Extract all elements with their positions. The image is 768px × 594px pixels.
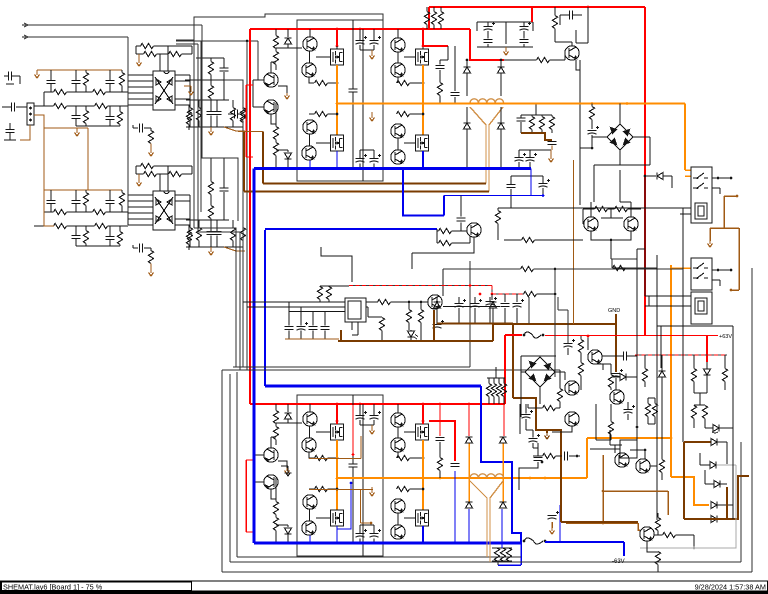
brown wire: [603, 490, 668, 492]
wire: [397, 53, 399, 63]
wire: [189, 195, 191, 225]
wire: [175, 80, 190, 82]
wire: [76, 128, 78, 130]
red wire: [246, 531, 253, 533]
wire: [190, 86, 192, 89]
mosfet M7: [331, 510, 344, 526]
resistor R24: [169, 171, 182, 176]
wire: [491, 286, 493, 295]
capacitor C70: [451, 464, 460, 467]
transistor Q2: [302, 63, 316, 77]
wire: [676, 534, 695, 536]
wire: [587, 7, 589, 43]
wire: [433, 25, 435, 30]
red wire: [423, 29, 448, 46]
wire: [487, 44, 489, 47]
capacitor C73: [565, 452, 568, 461]
wire: [210, 127, 212, 129]
capacitor C11: [106, 237, 115, 240]
wire: [321, 247, 352, 282]
wire: [133, 127, 138, 129]
wire: [9, 123, 11, 130]
resistor R5: [54, 103, 67, 108]
wire: [410, 488, 424, 490]
wire: [610, 388, 612, 391]
wire: [693, 535, 695, 548]
wire: [551, 130, 553, 134]
junction: [468, 542, 471, 545]
red wire: [469, 29, 471, 40]
wire: [210, 236, 212, 248]
LED arrows: [414, 335, 418, 340]
orange wire: [336, 440, 338, 510]
electrolytic capacitor C55: [522, 415, 531, 419]
wire: [397, 78, 399, 84]
wire: [75, 226, 77, 236]
wire: [76, 245, 120, 247]
wire: [4, 75, 9, 77]
wire: [410, 82, 424, 84]
resistor R75: [659, 460, 664, 473]
wire: [520, 115, 522, 118]
wire: [222, 571, 752, 573]
capacitor C24: [349, 89, 358, 92]
connector K1 outline: [691, 167, 712, 223]
diode D40: [620, 374, 626, 381]
blue wire: [336, 151, 338, 168]
electrolytic capacitor C32: [484, 27, 493, 31]
wire: [373, 525, 375, 534]
wire: [287, 150, 289, 152]
resistor R4: [93, 89, 106, 94]
junction: [336, 477, 339, 480]
wire: [253, 454, 264, 456]
wire: [154, 45, 193, 47]
wire: [189, 220, 191, 228]
wire: [410, 457, 424, 459]
wire: [614, 445, 616, 453]
wire: [184, 85, 191, 87]
wire: [352, 20, 354, 89]
wire: [150, 264, 152, 271]
transistor Q9: [391, 124, 405, 138]
wire: [511, 175, 543, 177]
wire: [498, 378, 500, 384]
wire: [559, 370, 561, 389]
wire: [288, 302, 290, 326]
wire: [644, 355, 646, 369]
wire: [197, 44, 199, 232]
wire: [645, 295, 691, 297]
wire: [359, 150, 361, 159]
wire: [680, 207, 691, 209]
wire: [119, 245, 121, 247]
wire: [121, 190, 123, 193]
junction: [730, 289, 733, 292]
resistor R25: [148, 251, 153, 264]
diode D50: [466, 437, 473, 443]
capacitor C39: [517, 118, 526, 121]
wire: [127, 195, 129, 225]
brown wire: [262, 132, 264, 184]
transistor Q17: [303, 495, 317, 509]
brown wire: [683, 442, 685, 519]
wire: [439, 471, 441, 479]
wire: [76, 125, 120, 127]
wire: [144, 247, 151, 249]
junction: [717, 177, 720, 180]
long wire: [200, 41, 202, 212]
brown wire: [615, 314, 617, 372]
blue wire: [309, 536, 311, 544]
wire: [328, 457, 338, 459]
diode D8: [498, 123, 505, 129]
wire: [442, 269, 444, 296]
ground: [545, 433, 550, 439]
wire: [654, 398, 656, 404]
junction: [422, 457, 425, 460]
junction: [479, 293, 482, 296]
junction: [370, 522, 373, 525]
junction: [576, 455, 579, 458]
status box left: [2, 582, 192, 590]
wire: [510, 189, 512, 208]
wire: [647, 398, 649, 404]
resistor R64: [494, 548, 499, 561]
wire: [373, 164, 375, 169]
diode D34: [711, 439, 717, 446]
blue wire: [403, 169, 444, 216]
wire: [175, 98, 190, 100]
wire: [500, 107, 502, 123]
long wire: [194, 14, 383, 40]
junction: [336, 28, 339, 31]
transistor Q27: [624, 217, 638, 231]
wire: [360, 49, 374, 51]
power block outline: [297, 395, 383, 556]
wire: [408, 323, 410, 331]
red rail wire: [424, 403, 505, 405]
wire: [67, 105, 95, 107]
brown wire: [573, 160, 575, 324]
wire: [528, 297, 530, 324]
resistor R17: [93, 209, 106, 214]
wire: [109, 190, 111, 201]
wire: [328, 488, 338, 490]
wire: [287, 44, 289, 48]
resistor R62: [539, 117, 544, 130]
wire: [542, 176, 544, 184]
ground: [549, 156, 554, 162]
wire: [411, 253, 413, 269]
resistor R41: [439, 240, 452, 245]
status bar frame: [1, 581, 768, 591]
wire: [328, 82, 338, 84]
wire: [426, 25, 428, 30]
wire: [437, 230, 439, 232]
wire: [270, 62, 272, 73]
wire: [176, 39, 194, 41]
wire: [504, 102, 507, 104]
resistor R71: [722, 369, 727, 382]
resistor R53: [273, 518, 278, 531]
capacitor C47: [321, 327, 330, 330]
wire: [300, 331, 302, 340]
resistor R60: [437, 83, 442, 96]
transistor Q31: [636, 459, 650, 473]
wire: [159, 174, 161, 191]
bus wire: [222, 369, 560, 371]
wire: [381, 316, 383, 319]
wire: [704, 470, 706, 484]
wire: [647, 542, 658, 553]
wire: [460, 223, 462, 232]
transistor Q25: [565, 412, 579, 426]
long wire: [656, 255, 658, 453]
junction: [591, 147, 594, 150]
wire: [289, 311, 345, 313]
wire: [275, 65, 277, 71]
junction: [466, 59, 469, 62]
wire: [397, 514, 399, 525]
wire: [312, 312, 314, 326]
wire: [493, 378, 495, 384]
wire: [371, 425, 373, 428]
wire: [433, 7, 435, 12]
op-amp U2: [153, 191, 175, 230]
junction: [29, 119, 32, 122]
wire: [503, 397, 505, 405]
wire: [275, 49, 277, 52]
capacitor C3: [106, 81, 115, 84]
wire: [410, 330, 412, 331]
controller U5: [345, 298, 366, 322]
wire: [439, 96, 441, 104]
wire: [210, 219, 212, 221]
resistor R59: [552, 16, 557, 29]
wire: [580, 353, 582, 363]
wire: [469, 237, 471, 244]
wire: [36, 70, 38, 72]
wire: [270, 437, 272, 448]
wire: [619, 104, 621, 125]
red wire: [245, 85, 247, 157]
red wire: [352, 405, 354, 454]
wire: [37, 69, 44, 71]
brown wire: [309, 458, 361, 460]
blue wire: [336, 526, 338, 543]
blue wire: [443, 196, 445, 216]
junction: [469, 284, 472, 287]
wire: [682, 325, 684, 327]
wire: [660, 326, 662, 368]
wire: [454, 46, 456, 60]
resistor R29: [187, 108, 192, 121]
wire: [705, 483, 714, 485]
wire: [128, 104, 153, 106]
wire: [520, 122, 522, 133]
brown wire: [709, 228, 711, 241]
blue wire: [265, 228, 437, 230]
wire: [500, 60, 502, 67]
blue wire: [422, 151, 424, 168]
resistor R48: [273, 427, 278, 440]
wire: [609, 430, 611, 445]
wire: [189, 121, 191, 128]
wire: [649, 137, 651, 160]
resistor R55: [543, 405, 556, 410]
wire: [128, 92, 153, 94]
wire: [157, 173, 169, 175]
capacitor C8: [72, 201, 81, 204]
wire: [109, 106, 111, 117]
junction: [336, 420, 339, 423]
junction: [359, 28, 362, 31]
wire: [128, 212, 153, 214]
wire: [532, 443, 534, 448]
wire: [551, 522, 553, 528]
resistor R40: [273, 52, 278, 65]
wire: [467, 102, 470, 104]
red wire: [706, 336, 708, 363]
wire: [619, 150, 621, 165]
blue wire: [337, 483, 351, 543]
wire: [519, 149, 551, 151]
wire: [443, 268, 521, 270]
capacitor C17: [207, 112, 216, 115]
wire: [309, 29, 311, 37]
resistor R43: [522, 237, 535, 242]
resistor R40: [439, 228, 452, 233]
wire: [336, 46, 338, 49]
red wire: [505, 334, 522, 336]
capacitor C42: [507, 185, 516, 188]
wire: [136, 53, 144, 55]
resistor R62: [613, 265, 626, 270]
switch contact K1b: [693, 183, 708, 188]
wire: [704, 419, 706, 429]
wire: [75, 70, 77, 81]
wire: [593, 165, 595, 202]
capacitor C18: [213, 112, 222, 115]
wire: [489, 306, 491, 323]
wire: [580, 336, 582, 340]
red dashed wire: [635, 354, 727, 356]
resistor R47: [273, 411, 278, 424]
wire: [271, 115, 276, 125]
transistor Q15: [391, 413, 405, 427]
wire: [615, 378, 617, 390]
wire: [610, 240, 612, 259]
brown bus wire: [437, 322, 513, 324]
orange wire: [671, 477, 709, 505]
wire: [644, 176, 646, 183]
transistor Q14: [264, 475, 278, 489]
electrolytic capacitor C61: [486, 302, 495, 306]
brown wire: [726, 487, 728, 519]
wire: [198, 220, 200, 228]
wire: [121, 70, 123, 73]
resistor R11: [169, 51, 182, 56]
diode D7: [464, 123, 471, 129]
transistor Q10: [391, 150, 405, 164]
wire: [657, 325, 733, 327]
component box: [620, 440, 637, 458]
wire: [498, 397, 500, 405]
zener D33: [713, 425, 719, 432]
wire: [541, 115, 543, 117]
wire: [521, 355, 556, 357]
wire: [497, 561, 499, 565]
wire: [647, 417, 649, 425]
wire: [188, 125, 190, 131]
wire: [436, 308, 438, 323]
resistor R55: [424, 12, 429, 25]
wire: [75, 119, 77, 127]
wire: [189, 100, 191, 108]
wire: [724, 355, 726, 369]
wire: [706, 375, 708, 393]
brown wire: [309, 489, 373, 491]
resistor R30: [196, 108, 201, 121]
wire: [685, 169, 691, 171]
wire: [525, 404, 527, 414]
svg-text:GND: GND: [608, 308, 620, 314]
wire: [373, 420, 375, 425]
blue wire: [530, 169, 532, 196]
wire: [43, 92, 45, 106]
wire: [602, 355, 624, 357]
wire: [242, 220, 244, 228]
ground: [370, 53, 375, 59]
wire: [132, 125, 134, 128]
junction: [350, 482, 353, 485]
wire: [136, 173, 144, 175]
wire: [644, 382, 646, 388]
brown supply bus wire: [44, 69, 122, 71]
wire: [440, 7, 442, 12]
wire: [232, 100, 234, 108]
capacitor C2: [72, 81, 81, 84]
wire: [655, 534, 663, 536]
orange wire: [586, 438, 588, 478]
wire: [6, 83, 14, 85]
red wire: [429, 421, 455, 461]
brown wire: [238, 131, 263, 133]
wire: [493, 323, 517, 325]
wire: [732, 423, 734, 519]
wire: [154, 165, 193, 167]
wire: [252, 455, 254, 482]
wire: [712, 177, 731, 179]
resistor R22: [141, 163, 154, 168]
wire: [693, 404, 695, 407]
transistor Q20: [391, 525, 405, 539]
wire: [320, 285, 349, 287]
wire: [188, 225, 190, 232]
wire: [242, 241, 244, 248]
ground: [75, 130, 80, 136]
wire: [271, 61, 276, 63]
red wire: [422, 404, 424, 424]
wire: [541, 130, 543, 134]
junction: [602, 490, 605, 493]
resistor R69: [406, 310, 411, 323]
wire: [109, 240, 111, 247]
electrolytic capacitor C56: [529, 439, 538, 443]
wire: [144, 127, 151, 129]
wire: [554, 7, 556, 16]
